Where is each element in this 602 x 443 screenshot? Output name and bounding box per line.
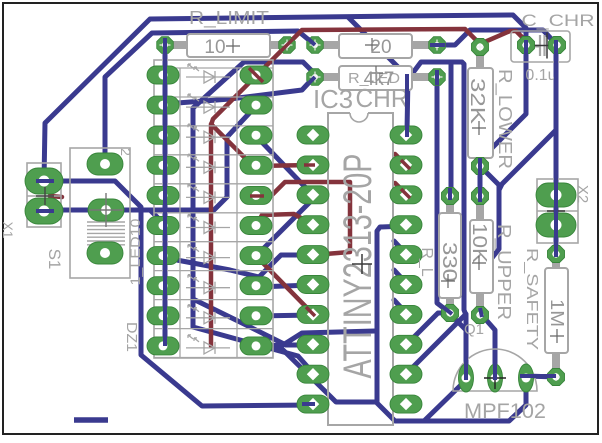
wire lone bottom-left segment <box>74 417 108 423</box>
label pin2 of LED bargraph <box>118 148 134 156</box>
svg-text:C_CHR: C_CHR <box>522 11 595 30</box>
wire core R20 left pad <box>308 39 315 46</box>
capacitor C_CHR plates <box>534 35 545 56</box>
capacitor C_CHR pad 1 <box>518 37 535 54</box>
wire R_LED right pad down to R330 bottom pad <box>437 80 450 313</box>
capacitor C_CHR cross <box>534 33 560 59</box>
wire LED row10 right pad to bottom bus <box>262 346 377 402</box>
resistor R_UPPER cross <box>472 256 486 270</box>
wire drop to R330 top pad <box>450 62 451 196</box>
resistor R_LOWER value 32K <box>466 78 488 125</box>
wire LED vertical junction up to R_LED left pad <box>193 62 315 108</box>
resistor R_SAFETY stubs <box>552 262 560 369</box>
resistor R_LOWER pad 1 <box>472 39 489 56</box>
label R_SAFETY <box>523 248 540 350</box>
svg-text:ATTINY2313-20P: ATTINY2313-20P <box>336 154 380 379</box>
wire core red IC3 pin 19 <box>401 160 410 169</box>
svg-text:1M: 1M <box>547 299 567 327</box>
svg-text:CHR: CHR <box>356 83 409 113</box>
connector X2 pad 1 <box>536 183 576 207</box>
wire core red R_LIMIT right pad <box>281 39 293 51</box>
resistor R330 pad 1 <box>442 188 459 205</box>
resistor R20 pad 1 <box>307 37 324 54</box>
wire R_LOWER bottom pad down right side to R_UPPER bottom pad <box>480 166 499 311</box>
label Q1 <box>464 321 484 338</box>
wire red LED row6 right pad to IC3 pin 4 <box>256 214 313 226</box>
op-amp IC3 outline <box>328 113 393 425</box>
connector X2 outline <box>537 179 578 243</box>
resistor R_SAFETY body <box>545 268 568 353</box>
wire core Q1 pad 3 to R_SAFETY <box>520 374 556 378</box>
label 0.1u <box>525 67 556 84</box>
LED symbols <box>186 64 230 354</box>
transistor Q1 outline <box>453 349 537 391</box>
wire stub to IC3 pin 16 <box>394 270 406 283</box>
resistor R_LED body <box>339 66 412 90</box>
switch S1 outline <box>70 148 130 278</box>
svg-text:IC3: IC3 <box>313 84 353 114</box>
wire X1-2 branch to LED left bus <box>150 210 164 224</box>
wire red stub to IC3 pin 18 <box>395 183 406 194</box>
label C_CHR <box>522 11 595 30</box>
wire LED left pads bus vertical <box>163 50 168 346</box>
wire core red IC3 pin 18 <box>401 189 410 198</box>
resistor R20 cross <box>365 38 379 52</box>
wire IC3 pin 12 diagonal to Q1 pin 1 vertical <box>406 314 466 374</box>
resistor R_SAFETY pad 1 <box>548 246 565 263</box>
wire branch to IC3 pin 8 <box>193 299 313 345</box>
wire Q1 pin 1 to bottom bus <box>425 383 463 420</box>
wire core X1 pad 2 <box>36 209 54 213</box>
wire R20 right pad to C_CHR right pad <box>437 30 556 45</box>
wire LED row9 right pad to IC3 pin 7 <box>256 315 313 316</box>
svg-text:10: 10 <box>204 37 225 58</box>
label 1_LED10 <box>127 218 143 285</box>
svg-text:32K: 32K <box>466 78 488 125</box>
wire core R_LED left pad <box>309 77 315 83</box>
resistor R_LED pad 1 <box>307 69 324 86</box>
transistor Q1 pad 3 <box>519 364 534 392</box>
switch S1 pad 3 <box>87 242 123 264</box>
wire stub to IC3 pin 15 <box>394 241 406 254</box>
svg-text:0.1u: 0.1u <box>525 67 556 84</box>
wire LED row7 right pad to IC3 pin 3 <box>256 196 313 256</box>
IC3 origin cross <box>352 254 372 274</box>
LED left pads <box>147 66 179 355</box>
wire branch over R_LED pad down to Q1 pin 1 vertical <box>409 62 466 315</box>
switch S1 pad 2 cross <box>89 193 123 227</box>
wire red LED row4 right pad to IC3 pin 2 <box>211 124 313 166</box>
wire core red IC3 pin 2 <box>304 163 315 167</box>
resistor R_LIMIT cross <box>226 39 240 53</box>
wire IC3 pin 14 under chip to bottom bus and Q1 pin 3 <box>377 226 526 421</box>
wire LED row10 right pad rising to under-chip vertical <box>256 331 375 346</box>
svg-text:R_UPPER: R_UPPER <box>493 224 514 320</box>
wire core R_UPPER bottom pad <box>480 308 482 317</box>
wire IC3 pin 13 to R330 bottom pad <box>406 313 448 345</box>
connector X2 origin cross <box>547 202 565 220</box>
resistor R_LIMIT body <box>187 34 270 57</box>
label MPF102 <box>464 400 546 423</box>
wire red tiny X1 mark <box>50 196 62 197</box>
wire LED row3 right pad diagonal to IC3 pin 3 <box>256 136 313 194</box>
wire core red IC3 pin 7 <box>306 307 315 316</box>
svg-text:X2: X2 <box>574 185 591 203</box>
wire red R_LIMIT right pad to R_LOWER top and C_CHR left <box>287 29 528 45</box>
resistor R_LIMIT pad 1 <box>157 37 174 54</box>
wire R_UPPER bottom pad to Q1 pin 2 <box>480 313 495 376</box>
resistor R_UPPER body <box>470 220 493 293</box>
wire LED row8 right pad to IC3 pin 6 <box>256 285 313 287</box>
wire core IC3 pin 20 <box>405 74 409 137</box>
label CHR <box>356 83 409 113</box>
wire core R_LED right pad <box>435 70 439 85</box>
resistor R_SAFETY value 1M <box>547 299 567 327</box>
resistor R330 stubs <box>446 203 454 308</box>
wire X1-2 and S1 middle pad to LED row2 right pad <box>44 106 256 210</box>
wire core R20 right pad <box>430 43 445 47</box>
wire LED row2 left pad to R_LED left pad <box>164 76 315 104</box>
connector X1 pad 2 <box>25 198 63 224</box>
wire branch from right vertical to same node <box>499 130 556 190</box>
wire rail branch down to IC3 pin 20 <box>348 17 408 135</box>
label IC3 <box>313 84 353 114</box>
connector X1 divider <box>27 195 61 197</box>
wire stub to IC3 pin 17 <box>394 300 406 313</box>
wire core through LED left pads <box>163 38 167 346</box>
svg-text:2: 2 <box>118 148 134 156</box>
svg-text:R_LOWER: R_LOWER <box>494 69 515 169</box>
resistor R20 value <box>370 37 391 58</box>
resistor R_LOWER stubs <box>476 55 484 163</box>
resistor R330 value 330 <box>438 242 460 282</box>
wire second rail from S1 top pad to R20 left pad <box>105 31 315 164</box>
label ATTINY2313-20P <box>336 154 380 379</box>
resistor R_LOWER pad 2 <box>472 158 489 175</box>
switch S1 pad 2 <box>88 199 124 221</box>
resistor R_LOWER cross <box>472 121 486 135</box>
resistor R_UPPER pad 1 <box>472 188 489 205</box>
wire R_LOWER bottom pad to R_UPPER top pad <box>478 170 483 192</box>
svg-text:R_L: R_L <box>418 247 435 276</box>
wire top rail from X1-1 to C_CHR left pad and R_LOWER bottom pad <box>44 15 526 181</box>
svg-text:S1: S1 <box>45 249 64 270</box>
resistor R_LIMIT pad 2 <box>279 37 296 54</box>
resistor R_UPPER value 10K <box>468 223 490 264</box>
wire LED left bus shallow to IC3 pin 5 <box>166 255 313 277</box>
resistor R330 cross <box>441 274 455 288</box>
wire red LED row7 right pad to IC3 pin 7 <box>258 258 313 314</box>
wire core R330 bottom pad <box>443 307 452 314</box>
LED bargraph grid <box>154 68 273 358</box>
wire core X1 pad 1 <box>36 179 54 183</box>
label R_L <box>418 247 435 276</box>
wire red stub to IC3 pin 19 <box>395 154 406 165</box>
wire ground bus X1-1 around bottom to IC3 pin 10 <box>44 181 313 406</box>
svg-text:20: 20 <box>370 37 391 58</box>
resistor R_UPPER stubs <box>476 204 484 309</box>
connector X1 outline <box>27 163 61 227</box>
transistor Q1 pad 1 <box>459 364 474 392</box>
svg-text:R_SAFETY: R_SAFETY <box>523 248 540 350</box>
IC3 left pads <box>297 126 329 413</box>
svg-text:R_LIMIT: R_LIMIT <box>189 8 269 29</box>
resistor R20 stubs <box>323 41 429 49</box>
label R_UPPER <box>493 224 514 320</box>
connector X1 pad 1 <box>25 168 63 194</box>
connector X2 pad 2 <box>536 213 576 237</box>
resistor R_LOWER body <box>468 68 493 158</box>
label X1 <box>0 221 16 238</box>
label R_LIMIT <box>189 8 269 29</box>
capacitor C_CHR outline <box>511 31 570 62</box>
resistor R20 body <box>339 34 412 58</box>
svg-text:DZ1: DZ1 <box>123 322 140 352</box>
resistor R_UPPER pad 2 <box>472 307 489 324</box>
resistor R_LIMIT value 10 <box>204 37 225 58</box>
wire core right side vertical <box>554 40 558 257</box>
wire R_SAFETY bottom pad to Q1 pin 3 <box>526 376 556 377</box>
wire LED inner vertical to IC3 pin 9 <box>193 108 313 373</box>
resistor R_LED value 4k7 <box>364 69 395 90</box>
capacitor C_CHR pad 2 <box>549 37 566 54</box>
LED right pads <box>240 66 272 355</box>
wire red LED row6 via chip interior to IC3 pin 5 <box>256 182 350 255</box>
resistor R330 body <box>439 213 461 298</box>
svg-text:330: 330 <box>438 242 460 282</box>
label X2 <box>574 185 591 203</box>
wire core IC3 pin 10 <box>302 402 315 406</box>
resistor R_SAFETY pad 2 <box>548 369 565 386</box>
resistor R_LED pad 2 <box>429 69 446 86</box>
connector X2 divider <box>537 210 578 212</box>
wire Q1 pin 1 vertical <box>464 315 469 378</box>
resistor R_LED stubs <box>323 73 429 81</box>
LED bargraph outline <box>154 60 273 358</box>
svg-text:X1: X1 <box>0 221 16 238</box>
resistor R_SAFETY cross <box>550 329 564 343</box>
wire core Q1 pad 2 <box>493 360 497 380</box>
IC3 right pads <box>390 126 422 413</box>
label R_LED <box>348 70 400 87</box>
label R_LOWER <box>494 69 515 169</box>
label S1 <box>45 249 64 270</box>
wire core red R_LIMIT diag <box>249 68 263 82</box>
wire right side vertical C_CHR right pad to R_SAFETY top pad through X2 <box>554 45 559 254</box>
switch S1 hatch body <box>87 222 125 245</box>
transistor Q1 pad 2 cross <box>484 367 506 389</box>
svg-text:Q1: Q1 <box>464 321 484 338</box>
resistor R330 pad 2 <box>442 305 459 322</box>
transistor Q1 pad 2 <box>488 364 503 392</box>
resistor R_LIMIT stubs <box>173 41 280 49</box>
wire red R_LIMIT right pad diagonal to LED column vertical <box>211 45 287 346</box>
wire core red LED row5 right pad <box>250 194 264 198</box>
wire core Q1 pad 1 <box>464 356 468 380</box>
wire core R_LOWER bottom to R_UPPER top <box>478 158 482 202</box>
switch S1 pad 1 <box>87 153 123 175</box>
connector X1 origin cross <box>36 187 54 205</box>
wire R330 bottom pad to Q1 pin 1 vertical <box>450 314 466 330</box>
label DZ1 <box>123 322 140 352</box>
resistor R_LED cross <box>369 66 383 80</box>
svg-text:1_LED10: 1_LED10 <box>127 218 143 285</box>
wire core C_CHR left pad <box>524 40 528 58</box>
wire core R330 top pad <box>448 188 452 200</box>
svg-text:MPF102: MPF102 <box>464 400 546 423</box>
resistor R20 pad 2 <box>429 37 446 54</box>
